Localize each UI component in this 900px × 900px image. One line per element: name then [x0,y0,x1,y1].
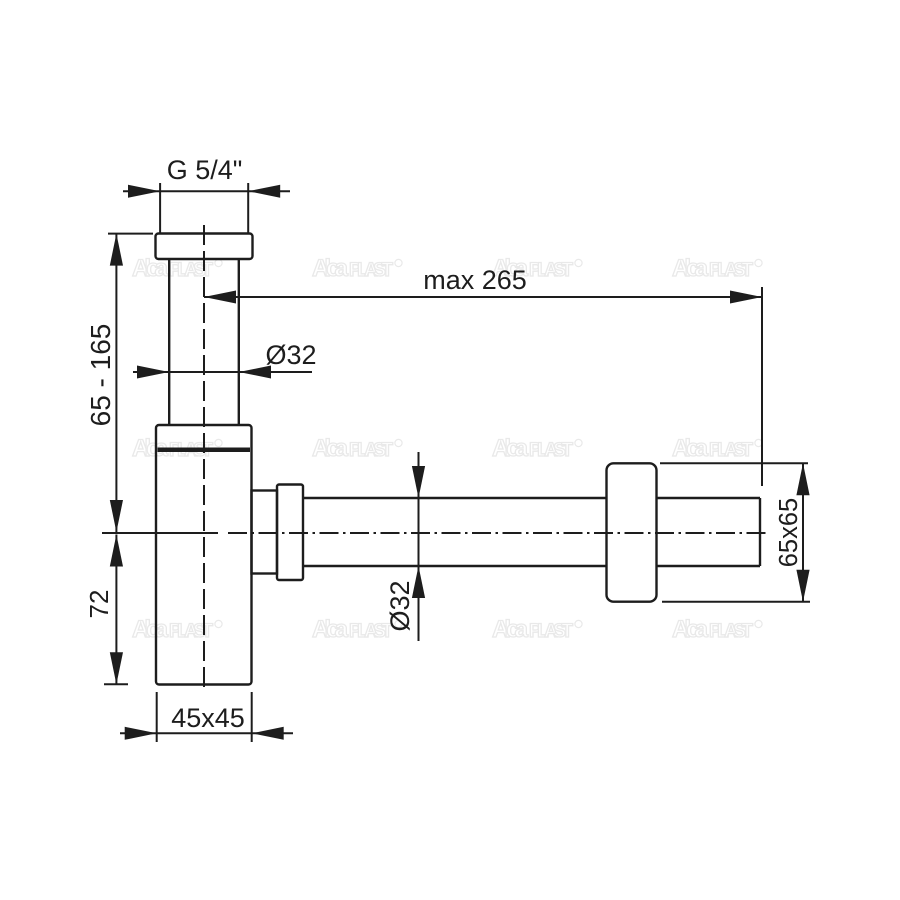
top flange nut [156,234,253,260]
body joint band [158,448,251,453]
svg-text:Alca: Alca [312,435,349,462]
outlet pipe left segment top wall [303,497,607,499]
dimension 65 - 165 line [115,234,117,532]
outlet pipe right segment bottom wall [657,565,760,567]
dimension 45x45 right extension line [251,692,253,742]
svg-text:PLAST: PLAST [349,260,393,281]
outlet step small [252,491,278,574]
svg-text:PLAST: PLAST [709,621,753,642]
dimension 45x45 left extension line [156,692,158,742]
dimension 65 - 165 down arrow [110,500,123,532]
svg-text:45x45: 45x45 [171,703,245,733]
dimension 72 up arrow [110,535,123,567]
dimension Ø32 inlet line [133,371,312,373]
dimension Ø32 inlet right arrow [239,366,271,379]
dimension Ø32 outlet up arrow [412,566,425,598]
dimension 65x65 down arrow [796,570,809,602]
dimension max 265 left arrow [204,291,236,304]
svg-text:72: 72 [84,590,114,619]
svg-text:Alca: Alca [312,255,349,282]
trap body [156,425,252,685]
dimension 72 line [115,535,117,685]
dimension 65x65 bottom extension line [662,601,810,603]
svg-text:PLAST: PLAST [169,260,213,281]
dimension G 5/4" line [123,190,290,192]
dimension G 5/4" left extension line [159,183,161,233]
svg-text:Ø32: Ø32 [385,580,415,631]
dimension max 265 right extension line [761,287,763,486]
svg-text:Alca: Alca [672,616,709,643]
svg-text:PLAST: PLAST [529,440,573,461]
dimension Ø32 outlet down arrow [412,466,425,498]
dimension 45x45 line [120,732,293,734]
svg-text:Alca: Alca [492,435,529,462]
dimension 72 down arrow [110,652,123,684]
dimension G 5/4" left arrow [128,185,160,198]
svg-text:PLAST: PLAST [529,260,573,281]
vertical centerline of inlet pipe and body [203,225,205,692]
watermark tiles [132,255,762,643]
dimension G 5/4" right extension line [247,183,249,233]
dimension 65x65 up arrow [796,463,809,495]
svg-text:PLAST: PLAST [169,621,213,642]
dimension G 5/4" right arrow [248,185,280,198]
dimension Ø32 inlet left arrow [137,366,169,379]
svg-text:PLAST: PLAST [709,440,753,461]
outlet pipe right segment top wall [657,497,760,499]
outlet step large [277,485,303,581]
svg-text:G 5/4": G 5/4" [167,155,243,185]
inlet pipe right wall [238,259,240,425]
compression nut 65x65 [607,463,657,601]
dimension 72 bottom tick [104,683,128,685]
dimension max 265 line [204,296,762,298]
svg-text:PLAST: PLAST [709,260,753,281]
outlet pipe left segment bottom wall [303,565,607,567]
inlet pipe left wall [168,259,170,425]
outlet pipe end cap [759,498,761,566]
dimension 65x65 top extension line [660,462,808,464]
svg-text:Alca: Alca [132,616,169,643]
svg-text:65 - 165: 65 - 165 [85,324,116,427]
svg-text:65x65: 65x65 [775,498,803,567]
svg-text:Alca: Alca [492,616,529,643]
dimension 45x45 right arrow [252,727,284,740]
dimension Ø32 outlet line [418,452,420,641]
svg-text:Alca: Alca [672,255,709,282]
dimension 65x65 line [802,463,804,601]
svg-text:Ø32: Ø32 [265,340,316,370]
dimension 45x45 left arrow [125,727,157,740]
svg-text:PLAST: PLAST [529,621,573,642]
dimension 65 - 165 up arrow [110,234,123,266]
svg-text:Alca: Alca [672,435,709,462]
svg-text:Alca: Alca [312,616,349,643]
svg-text:PLAST: PLAST [349,440,393,461]
horizontal centerline of outlet pipe [228,532,766,534]
dimension 65 - 165 top tick [108,233,153,235]
centerline left extension tick [102,532,218,534]
dimension max 265 right arrow [730,291,762,304]
svg-text:max 265: max 265 [423,265,527,295]
